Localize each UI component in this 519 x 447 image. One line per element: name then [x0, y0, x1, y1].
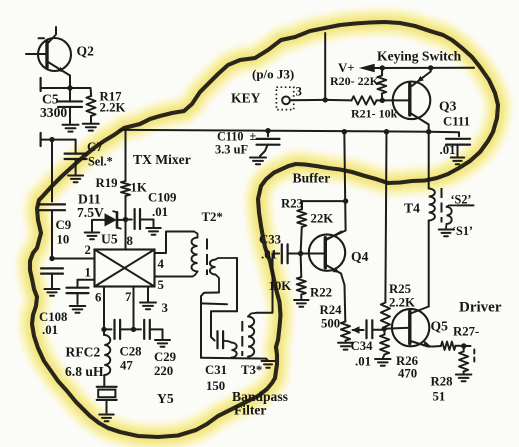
svg-text:5: 5 — [158, 278, 164, 292]
capacitor C7 — [75, 140, 77, 154]
mixer U5 box — [95, 250, 155, 287]
node C110 — [265, 128, 270, 133]
wire KEY up — [324, 33, 326, 100]
wire Q5 base — [384, 328, 409, 329]
svg-text:Driver: Driver — [459, 300, 502, 316]
svg-text:1: 1 — [85, 266, 91, 280]
svg-text:3.3 uF: 3.3 uF — [215, 143, 248, 157]
svg-text:500: 500 — [321, 317, 340, 331]
node Q3 collector — [426, 129, 431, 134]
capacitor C109 — [126, 219, 132, 221]
resistor R20 — [378, 76, 387, 94]
svg-text:Q2: Q2 — [77, 44, 95, 59]
capacitor C28 — [104, 328, 112, 330]
transistor Q4 — [309, 234, 345, 270]
transistor Q2 — [38, 38, 71, 71]
svg-text:.01: .01 — [152, 205, 168, 219]
svg-text:T2*: T2* — [202, 210, 223, 224]
svg-text:1K: 1K — [131, 181, 147, 195]
transformer T3 secondary — [248, 313, 257, 317]
svg-text:220: 220 — [154, 364, 173, 378]
svg-text:T4: T4 — [404, 201, 420, 216]
svg-text:RFC2: RFC2 — [66, 345, 101, 360]
wire Q3 base — [382, 99, 410, 101]
wire Q4 base — [301, 253, 325, 255]
ground Y5 — [99, 414, 114, 416]
resistor R23 — [302, 201, 346, 209]
wire S2 — [458, 204, 474, 206]
svg-text:R22: R22 — [310, 286, 332, 300]
ground C5 — [63, 124, 79, 126]
wire R27 out — [456, 345, 471, 347]
svg-text:R20- 22K: R20- 22K — [330, 74, 380, 88]
capacitor C5 — [69, 88, 71, 101]
node C28/C29 — [131, 327, 136, 332]
svg-text:10K: 10K — [269, 279, 292, 293]
svg-text:C29: C29 — [154, 350, 176, 364]
transformer T2 primary — [194, 232, 198, 238]
wire stub — [201, 302, 227, 305]
capacitor C31 — [216, 331, 218, 348]
ground C29 — [155, 339, 170, 341]
transistor Q5 — [392, 309, 429, 346]
transformer T4 primary — [429, 189, 435, 221]
svg-text:2.2K: 2.2K — [100, 101, 126, 115]
ground R22 — [294, 299, 309, 301]
resistor R25 — [381, 303, 390, 327]
svg-text:T3*: T3* — [241, 363, 262, 377]
svg-text:47: 47 — [120, 359, 133, 373]
wire pin6 — [103, 287, 105, 330]
capacitor C111 — [446, 138, 470, 140]
svg-text:TX Mixer: TX Mixer — [133, 152, 191, 167]
svg-text:KEY: KEY — [231, 91, 261, 106]
resistor R21 — [352, 96, 377, 104]
resistor R19 — [121, 181, 130, 196]
svg-text:(p/o J3): (p/o J3) — [252, 67, 294, 82]
resistor R28 — [463, 346, 465, 352]
node D11/C109 — [123, 217, 128, 222]
svg-text:2: 2 — [85, 243, 91, 257]
svg-text:51: 51 — [433, 390, 446, 404]
wire pin4 — [155, 232, 195, 254]
wire T2sec-top down — [236, 258, 238, 311]
ground T3 — [266, 359, 268, 360]
svg-text:R19: R19 — [96, 176, 118, 190]
connector J3 — [276, 87, 293, 109]
wire pin5 — [155, 276, 193, 278]
ground C111 — [451, 157, 465, 159]
pot wiper R24 — [353, 329, 362, 331]
wire to C31 — [211, 311, 237, 340]
svg-text:Y5: Y5 — [157, 391, 174, 406]
svg-text:6: 6 — [95, 291, 102, 305]
transistor Q3 — [393, 82, 431, 120]
wire bus-left corner — [120, 130, 126, 181]
capacitor C34 — [362, 329, 364, 331]
svg-text:R27-: R27- — [453, 325, 479, 339]
ground pin2 cap — [45, 288, 60, 290]
svg-text:.01: .01 — [440, 143, 456, 157]
svg-text:C108: C108 — [39, 310, 67, 324]
wire bottom rail — [201, 357, 266, 360]
svg-text:Buffer: Buffer — [293, 171, 331, 186]
svg-text:Keying Switch: Keying Switch — [377, 49, 462, 64]
node R27/R28 — [461, 343, 466, 348]
svg-text:.01: .01 — [42, 323, 58, 337]
node C7 junction — [49, 137, 54, 142]
svg-text:8: 8 — [127, 234, 133, 248]
ground T4 S1 — [439, 229, 454, 231]
node Q4 base — [298, 251, 303, 256]
wire C7 junction — [41, 139, 76, 141]
svg-text:2.2K: 2.2K — [389, 296, 415, 310]
ground C7 — [68, 175, 83, 177]
svg-text:Sel.*: Sel.* — [88, 155, 113, 169]
svg-text:C109: C109 — [148, 191, 176, 205]
capacitor C33 — [273, 253, 280, 255]
node Q4 collector bus — [342, 129, 347, 134]
svg-text:R28: R28 — [431, 375, 453, 389]
svg-text:7: 7 — [125, 290, 132, 304]
wire pin2 — [52, 258, 95, 260]
capacitor C9 — [39, 203, 65, 205]
capacitor C108 — [77, 285, 79, 288]
wire bandpass out — [257, 254, 273, 313]
svg-text:C31: C31 — [205, 363, 227, 377]
wire Q5 collector — [428, 132, 430, 189]
svg-text:C9: C9 — [56, 218, 72, 232]
transformer T2 secondary — [216, 258, 238, 260]
crystal Y5 — [97, 386, 117, 388]
transformer T3 primary — [229, 341, 232, 342]
svg-text:3300: 3300 — [40, 105, 67, 120]
wire C9 branch — [51, 140, 53, 202]
wire T2sec-bot to rail — [201, 293, 219, 358]
svg-text:V+: V+ — [338, 61, 355, 75]
node Q2 emitter — [67, 85, 72, 90]
capacitor C110 — [267, 131, 269, 137]
resistor R17 — [90, 89, 93, 97]
transformer T4 secondary — [447, 205, 458, 206]
svg-text:C110: C110 — [217, 130, 243, 144]
node R20 top — [380, 65, 385, 70]
wire Q5 emitter — [434, 345, 442, 348]
wire edge dashes — [473, 350, 475, 354]
potentiometer R24 — [341, 322, 350, 341]
svg-text:±: ± — [250, 129, 257, 143]
svg-text:470: 470 — [398, 367, 417, 381]
wire Q4 collector — [344, 132, 345, 231]
resistor R22 — [300, 254, 303, 278]
transformer T2 core — [206, 239, 208, 276]
node R25 bus — [384, 129, 389, 134]
ground pin3 — [140, 302, 156, 304]
wire stub top-left — [39, 37, 45, 39]
wire pin7 — [133, 287, 135, 330]
wire R25 drop — [385, 132, 386, 303]
svg-text:Q4: Q4 — [351, 249, 369, 264]
node R23 top — [343, 198, 348, 203]
svg-text:3: 3 — [296, 85, 302, 99]
svg-text:Q3: Q3 — [439, 99, 457, 114]
svg-text:150: 150 — [206, 379, 225, 393]
wire emitter node — [41, 87, 91, 89]
svg-text:C34: C34 — [351, 339, 374, 353]
wire D11 anode — [92, 220, 105, 231]
node Q3 emitter top — [428, 65, 433, 70]
svg-text:10: 10 — [57, 233, 70, 247]
svg-text:‘S2’: ‘S2’ — [451, 193, 472, 207]
node Q3 base — [380, 98, 385, 103]
svg-text:U5: U5 — [101, 232, 118, 247]
ground C110 — [250, 157, 266, 159]
svg-text:7.5V: 7.5V — [77, 205, 104, 220]
capacitor C29 — [134, 328, 142, 330]
node pin2 — [49, 256, 54, 261]
supply arrow V+ — [359, 64, 375, 72]
svg-text:‘S1’: ‘S1’ — [452, 224, 473, 238]
svg-text:R21- 10k: R21- 10k — [351, 107, 398, 121]
svg-text:3: 3 — [162, 301, 168, 315]
node KEY junction — [323, 97, 328, 102]
svg-text:R25: R25 — [389, 282, 411, 296]
svg-text:6.8 uH: 6.8 uH — [65, 364, 104, 379]
svg-text:4: 4 — [158, 257, 165, 271]
ground R17 — [83, 123, 99, 125]
ground R26 — [375, 358, 391, 360]
resistor R27 — [441, 342, 456, 350]
ground C109 — [146, 227, 161, 229]
resistor R26 — [383, 329, 385, 335]
svg-text:R23: R23 — [281, 197, 303, 211]
ground R24 — [338, 342, 353, 344]
svg-text:C111: C111 — [443, 115, 470, 129]
transformer T4 core — [441, 188, 443, 223]
ground D11 — [85, 232, 100, 234]
wire pin3 — [147, 287, 149, 302]
inductor RFC2 — [103, 329, 105, 335]
wire pin1 — [78, 280, 95, 287]
wire C111 tee — [429, 132, 459, 137]
ground C108 — [70, 305, 86, 307]
capacitor at pin2 node — [41, 267, 63, 269]
zener D11 — [117, 219, 126, 221]
wire KEY to junction — [290, 99, 325, 101]
svg-text:C28: C28 — [120, 345, 142, 359]
svg-text:R24: R24 — [320, 303, 343, 317]
svg-text:Q5: Q5 — [431, 319, 449, 334]
svg-text:.01: .01 — [355, 355, 371, 369]
wire main bus — [120, 130, 429, 132]
node RFC2/C28 — [101, 327, 106, 332]
wire pin8 — [125, 220, 127, 250]
transformer T3 core — [241, 321, 243, 356]
node Q5 base — [382, 326, 387, 331]
ground R28 — [456, 374, 472, 376]
svg-text:22K: 22K — [311, 212, 334, 226]
